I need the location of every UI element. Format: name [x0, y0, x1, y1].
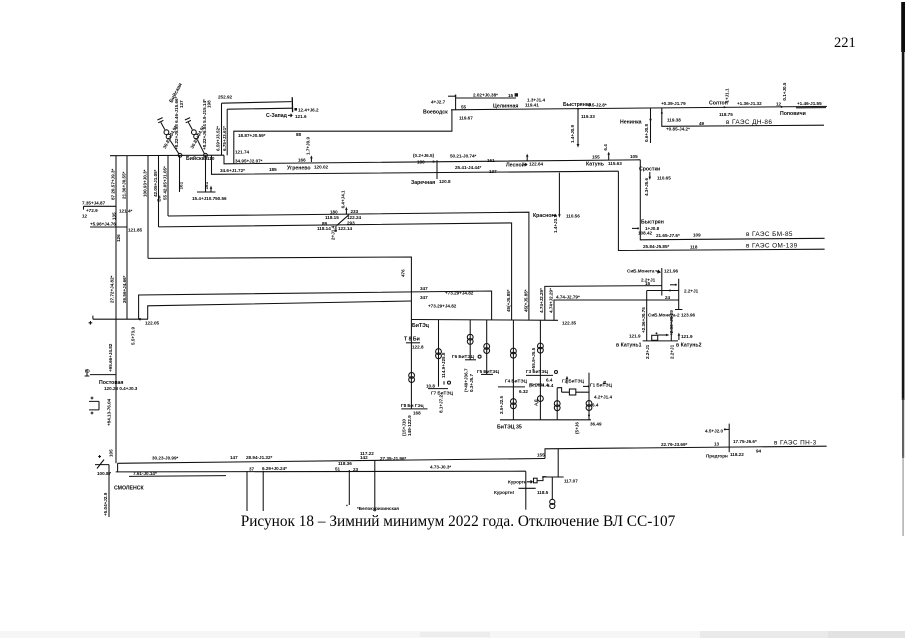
wire A2 long line to Т8 column: [148, 301, 412, 319]
svg-text:в Катунь2: в Катунь2: [676, 343, 702, 349]
svg-text:+95.66+J4.82: +95.66+J4.82: [108, 343, 113, 372]
svg-text:2.2+J1: 2.2+J1: [645, 344, 650, 359]
wire A1 long line to БиТЭЦ bus: [139, 291, 492, 320]
svg-text:166: 166: [298, 157, 306, 162]
svg-text:126: 126: [116, 234, 121, 242]
wire line1 Бийская-Катунь: [224, 155, 640, 164]
svg-text:+84.13-76.04: +84.13-76.04: [107, 398, 112, 426]
node Красногорское drop: [558, 173, 560, 215]
svg-text:161: 161: [178, 181, 183, 189]
svg-text:6.29+J0.24*: 6.29+J0.24*: [262, 466, 287, 471]
svg-text:121.74: 121.74: [235, 149, 249, 154]
transformer T1 Бийская (slant branch with circles): [157, 118, 182, 158]
wire to ГАЭС ДН-86: [662, 108, 824, 127]
svg-text:4.73-J0.3*: 4.73-J0.3*: [430, 465, 451, 470]
svg-text:Воеводск: Воеводск: [423, 110, 448, 116]
svg-text:120.28 0.4+J0.3: 120.28 0.4+J0.3: [104, 386, 138, 391]
svg-text:*: *: [346, 504, 348, 509]
wire cross link: [647, 290, 679, 292]
svg-text:Рисунок 18 – Зимний минимум 20: Рисунок 18 – Зимний минимум 2022 года. О…: [241, 513, 676, 530]
svg-text:4.3+J5.6: 4.3+J5.6: [644, 178, 649, 196]
wire С-Запад line 1: [222, 102, 292, 104]
wire L2 long line to БиТЭЦ: [159, 223, 512, 320]
svg-text:СМОЛЕНСК: СМОЛЕНСК: [114, 485, 144, 491]
svg-text:0.1+J0.5: 0.1+J0.5: [782, 82, 787, 100]
svg-text:Ненинка: Ненинка: [620, 119, 642, 125]
label 121.9 right with arrow: [678, 335, 680, 340]
wire drop 3: [348, 470, 350, 505]
svg-text:55: 55: [461, 105, 467, 110]
svg-text:Заречная: Заречная: [411, 180, 435, 186]
svg-text:12: 12: [82, 214, 88, 219]
svg-text:118.14: 118.14: [317, 226, 331, 231]
svg-text:6.4: 6.4: [546, 377, 553, 382]
arrow up Катунь: [608, 154, 610, 160]
svg-text:в ГАЭС БМ-85: в ГАЭС БМ-85: [746, 231, 793, 238]
svg-text:142: 142: [360, 455, 368, 460]
svg-text:17.75-J6.6*: 17.75-J6.6*: [733, 439, 757, 444]
wire Белокурихинская column: [374, 461, 376, 512]
junction bus 122.05: [93, 316, 148, 320]
svg-text:6.4+J4.1: 6.4+J4.1: [341, 190, 346, 208]
svg-text:(5+J6: (5+J6: [574, 422, 579, 434]
bus Воеводск-Целинная-Солтон-Поповичи 110kV: [451, 106, 827, 109]
svg-text:120.02: 120.02: [314, 165, 328, 170]
wire trunk A continues to СМОЛЕНСК: [115, 319, 117, 463]
svg-text:25.41-J4.44*: 25.41-J4.44*: [455, 165, 482, 170]
mid tap cluster on L2: [317, 221, 355, 240]
svg-text:121.6: 121.6: [295, 114, 307, 119]
svg-text:+73.29+J4.82: +73.29+J4.82: [428, 303, 457, 308]
svg-text:28.94-J1.32*: 28.94-J1.32*: [246, 455, 273, 460]
svg-text:30.23-J0.99*: 30.23-J0.99*: [152, 455, 179, 460]
bus СМОЛЕНСК upper: [118, 459, 545, 464]
mid tap cluster on L1: [325, 190, 361, 220]
bus БиТЭЦ 110: [411, 319, 558, 322]
svg-text:8.1+J7.2: 8.1+J7.2: [439, 395, 444, 413]
svg-text:161: 161: [487, 158, 495, 163]
svg-text:+0.39-J1.79: +0.39-J1.79: [661, 101, 686, 106]
svg-text:118.36: 118.36: [338, 461, 352, 466]
wire stub down-left: [108, 465, 110, 517]
svg-text:+55.9+J5.5: +55.9+J5.5: [531, 347, 536, 371]
svg-text:149-122.9: 149-122.9: [407, 415, 412, 436]
svg-text:22.79-J3.69*: 22.79-J3.69*: [661, 442, 688, 447]
wire trunk A (x=116) Бийская to junction: [115, 156, 117, 320]
svg-text:+5.96+J4.76: +5.96+J4.76: [90, 221, 116, 226]
svg-text:94: 94: [756, 449, 762, 454]
svg-text:+0.85-J4.2*: +0.85-J4.2*: [666, 127, 690, 132]
svg-text:13: 13: [714, 441, 720, 446]
wire Т8 column: [410, 320, 412, 409]
wire Катунь1 left leg: [646, 291, 648, 341]
svg-text:122.8: 122.8: [412, 344, 424, 349]
label 1.7+J0.9 rotated with arrow: [310, 158, 312, 162]
svg-text:2.5+J2.5: 2.5+J2.5: [499, 396, 504, 414]
svg-text:Т 8 Би: Т 8 Би: [404, 336, 420, 342]
svg-text:1.7+J0.9: 1.7+J0.9: [305, 137, 310, 155]
svg-text:1.4+J0.9: 1.4+J0.9: [570, 125, 575, 143]
svg-text:Г7 БиТЭЦ: Г7 БиТЭЦ: [431, 390, 454, 395]
svg-text:105: 105: [109, 449, 114, 457]
svg-text:198: 198: [207, 100, 212, 108]
svg-text:118.75: 118.75: [719, 112, 733, 117]
wire Катунь2 inner leg: [670, 316, 672, 341]
svg-text:4.74+J2.29*: 4.74+J2.29*: [548, 288, 553, 313]
svg-text:7.61-J0.14*: 7.61-J0.14*: [133, 471, 157, 476]
svg-text:110.65: 110.65: [657, 176, 671, 181]
generator Г4 branch: [512, 320, 514, 420]
svg-text:119.41: 119.41: [525, 103, 539, 108]
wire L1 long line to БиТЭЦ: [168, 212, 529, 320]
node Ненинка drop: [650, 108, 652, 143]
svg-text:БиТЭЦ 35: БиТЭЦ 35: [497, 425, 522, 431]
wire drop 1: [246, 471, 248, 511]
svg-text:Постовая: Постовая: [99, 380, 123, 386]
wire branch to lower bus: [556, 388, 558, 420]
svg-text:114.9+J25.8: 114.9+J25.8: [441, 352, 446, 378]
motor АД: [538, 396, 544, 402]
wire С-Запад line 2: [227, 108, 292, 109]
svg-text:2.2+J1: 2.2+J1: [670, 344, 675, 359]
svg-text:в ГАЭС ДН-86: в ГАЭС ДН-86: [726, 119, 772, 126]
wire 24-line feeder: [554, 300, 679, 320]
svg-text:161: 161: [204, 181, 209, 189]
svg-text:347: 347: [420, 295, 428, 300]
svg-text:Быстрян: Быстрян: [641, 219, 664, 225]
svg-text:36.49: 36.49: [590, 422, 602, 427]
svg-text:27.72+J4.82*: 27.72+J4.82*: [110, 275, 115, 303]
svg-text:137: 137: [489, 169, 497, 174]
svg-text:4+J2.7: 4+J2.7: [431, 100, 446, 105]
svg-text:0.6+J0.8: 0.6+J0.8: [644, 124, 649, 142]
svg-text:4.5+J2.0: 4.5+J2.0: [705, 429, 723, 434]
wire СиБ.Монета feeder: [545, 286, 662, 320]
svg-text:15.4+J10.750.56: 15.4+J10.750.56: [192, 196, 227, 201]
svg-text:88: 88: [296, 132, 302, 137]
svg-text:121.4*: 121.4*: [119, 209, 132, 214]
svg-text:Бийская: Бийская: [186, 155, 208, 162]
bus БиТЭЦ 35: [500, 419, 591, 421]
svg-text:+2.36+J0.75: +2.36+J0.75: [641, 307, 646, 333]
scan artifact: bottom edge band: [0, 631, 905, 638]
svg-text:+1.36-J1.32: +1.36-J1.32: [737, 101, 762, 106]
wire trunk D (x=158.5) to line L2: [158, 156, 160, 227]
svg-text:118.15: 118.15: [325, 215, 339, 220]
svg-text:+1.46-J1.55: +1.46-J1.55: [797, 101, 822, 106]
wire Быстрянка drop with arrow: [577, 109, 579, 144]
svg-text:120.8: 120.8: [439, 179, 451, 184]
svg-text:25.84-J5.85*: 25.84-J5.85*: [643, 244, 670, 249]
svg-text:+73.29+J4.82: +73.29+J4.82: [445, 291, 474, 296]
svg-text:168: 168: [413, 410, 421, 415]
svg-text:21.65-J7.6*: 21.65-J7.6*: [656, 233, 680, 238]
svg-text:в ГАЭС ПН-3: в ГАЭС ПН-3: [774, 439, 817, 446]
svg-text:180: 180: [417, 159, 425, 164]
terminal square: [515, 93, 518, 96]
svg-text:+5.04+J2.9: +5.04+J2.9: [103, 492, 108, 516]
svg-text:147: 147: [230, 455, 238, 460]
svg-text:37: 37: [249, 467, 255, 472]
wire to ГАЭС ПН-3: [545, 446, 827, 458]
generator Г5 branch: [486, 320, 488, 374]
svg-text:117.07: 117.07: [564, 478, 578, 483]
shunt symbol: [89, 397, 99, 415]
svg-text:24: 24: [665, 295, 671, 300]
generator Г7 branch: [438, 320, 440, 387]
svg-text:Сростки: Сростки: [639, 167, 660, 173]
wire to ГАЭС ОМ-139: [618, 171, 824, 250]
node Предгорное stub: [728, 424, 730, 453]
svg-text:122.05: 122.05: [145, 320, 159, 325]
svg-text:180: 180: [330, 210, 338, 215]
svg-text:100.93+J0.3*: 100.93+J0.3*: [143, 169, 148, 197]
svg-text:122.24: 122.24: [347, 215, 361, 220]
svg-text:155: 155: [537, 453, 545, 458]
svg-text:26.56+J4.66*: 26.56+J4.66*: [122, 275, 127, 303]
svg-text:121.9: 121.9: [681, 334, 693, 339]
svg-text:2.02+J0.38*: 2.02+J0.38*: [473, 92, 498, 97]
svg-text:122.14: 122.14: [338, 226, 352, 231]
svg-text:221: 221: [834, 35, 856, 51]
svg-text:135: 135: [111, 212, 116, 220]
svg-text:155: 155: [592, 155, 600, 160]
wire trunk C (x=148) to line L3: [147, 156, 149, 259]
arrow tap: [448, 95, 455, 97]
tick: [519, 487, 536, 489]
svg-text:Целинная: Целинная: [493, 103, 518, 109]
generator Г6 branch: [469, 320, 471, 360]
svg-text:119.67: 119.67: [459, 116, 473, 121]
svg-text:50.21-J0.74*: 50.21-J0.74*: [450, 154, 477, 159]
svg-text:118.22: 118.22: [730, 452, 744, 457]
svg-text:34.95+J2.07*: 34.95+J2.07*: [235, 158, 263, 163]
wire Целинная upper stub: [456, 95, 516, 110]
wire trunk B (x=127) Бийская to junction: [126, 156, 128, 320]
transformer Т8 (two circles): [409, 373, 415, 379]
wire drop 2: [262, 471, 264, 511]
svg-text:27.35-J1.96*: 27.35-J1.96*: [380, 456, 407, 461]
svg-text:122.35: 122.35: [562, 321, 576, 326]
svg-text:+72.9: +72.9: [86, 208, 98, 213]
svg-text:4.74-J2.79*: 4.74-J2.79*: [556, 295, 580, 300]
svg-text:15: 15: [508, 93, 514, 98]
bottom bus Катунь: [643, 340, 678, 342]
svg-text:Г3 БиТЭЦ: Г3 БиТЭЦ: [526, 369, 549, 374]
breaker box: [652, 335, 658, 340]
svg-text:7.35+J4.87: 7.35+J4.87: [82, 200, 106, 205]
svg-text:5.5+73.9: 5.5+73.9: [131, 327, 136, 345]
svg-text:Угренево: Угренево: [287, 165, 311, 171]
stub west 2: [90, 226, 127, 228]
svg-text:119.33: 119.33: [581, 114, 595, 119]
svg-text:Г8 Би ГЭц: Г8 Би ГЭц: [401, 403, 424, 408]
svg-text:Курортн!: Курортн!: [494, 490, 515, 495]
svg-text:Г6 БиТЭЦ: Г6 БиТЭЦ: [452, 354, 475, 359]
bus Бийская 110: [110, 154, 224, 157]
svg-text:12: 12: [776, 101, 782, 106]
svg-text:С-Запад: С-Запад: [266, 113, 288, 119]
wire bus2 corner down: [525, 471, 527, 509]
svg-text:Би: Би: [157, 195, 162, 201]
svg-text:2+J1.4: 2+J1.4: [330, 225, 335, 240]
svg-text:137: 137: [179, 100, 184, 108]
svg-text:Предгорн: Предгорн: [706, 453, 728, 458]
svg-text:6.4: 6.4: [603, 144, 608, 151]
wire Курортное drop: [542, 449, 564, 477]
svg-text:6.4: 6.4: [547, 383, 554, 388]
svg-text:в Катунь1: в Катунь1: [616, 343, 642, 349]
svg-text:23: 23: [353, 467, 359, 472]
svg-text:51: 51: [335, 466, 341, 471]
svg-text:(0.2+J6.5): (0.2+J6.5): [413, 153, 435, 158]
wire L3 long line to Т8 column: [148, 257, 411, 320]
wire left end jog: [117, 463, 119, 472]
svg-text:45(+J5.85*: 45(+J5.85*: [523, 289, 528, 312]
svg-text:121.96: 121.96: [664, 269, 678, 274]
svg-text:49: 49: [699, 121, 705, 126]
bus СМОЛЕНСК lower: [116, 470, 526, 473]
svg-text:100.87: 100.87: [97, 471, 111, 476]
svg-text:Катунь: Катунь: [586, 161, 604, 167]
svg-text:233: 233: [351, 209, 359, 214]
svg-text:(+49+J36.7: (+49+J36.7: [464, 368, 469, 392]
wire drop to Бийская bus 1: [221, 103, 223, 155]
svg-text:123.96: 123.96: [681, 312, 695, 317]
svg-text:55 42.05+J1.05*: 55 42.05+J1.05*: [163, 166, 168, 200]
svg-text:119.38: 119.38: [667, 117, 681, 122]
svg-text:122.64: 122.64: [529, 162, 543, 167]
svg-text:105: 105: [630, 154, 638, 159]
node СиБ.Монета: [661, 268, 663, 296]
svg-text:СиБ.Монета-2: СиБ.Монета-2: [648, 312, 680, 317]
svg-text:6.75+J3.61*: 6.75+J3.61*: [222, 126, 227, 151]
svg-text:87 20.57+J9.3*: 87 20.57+J9.3*: [110, 168, 115, 200]
svg-text:2.2+J1: 2.2+J1: [684, 288, 699, 293]
svg-text:42.05+J1.05*: 42.05+J1.05*: [153, 169, 158, 197]
node Катунь-таун right leg: [675, 279, 682, 310]
wire Сростки drop to ГАЭС БМ-85: [640, 160, 824, 240]
svg-text:34.6+J1.72*: 34.6+J1.72*: [220, 168, 245, 173]
svg-text:110.56: 110.56: [566, 214, 580, 219]
svg-text:Красног: Красног: [533, 213, 554, 219]
stub Ю: [90, 374, 116, 376]
svg-text:18.87+J0.59*: 18.87+J0.59*: [238, 133, 266, 138]
svg-text:185: 185: [269, 167, 277, 172]
svg-text:Г2 БиТЭЦ: Г2 БиТЭЦ: [562, 379, 585, 384]
arrow up Лесной: [526, 156, 528, 161]
transformer T2 Бийская (slant branch with circles): [185, 118, 208, 158]
svg-text:Г4 БиТЭЦ: Г4 БиТЭЦ: [505, 379, 528, 384]
svg-text:6.4: 6.4: [592, 403, 599, 408]
svg-text:1+J1.1: 1+J1.1: [725, 88, 730, 103]
svg-text:252.92: 252.92: [218, 94, 232, 99]
svg-text:21.36+J0.55*: 21.36+J0.55*: [122, 171, 127, 199]
svg-text:293: 293: [347, 221, 355, 226]
svg-text:СиБ.Монета: СиБ.Монета: [627, 269, 655, 274]
svg-text:Курортн: Курортн: [508, 480, 527, 485]
svg-text:109: 109: [693, 233, 701, 238]
svg-text:347: 347: [420, 286, 428, 291]
svg-text:115.63: 115.63: [608, 161, 622, 166]
node Заречная tap: [436, 160, 438, 179]
wire drop to Бийская bus 2: [226, 109, 228, 155]
svg-text:в ГАЭС ОМ-139: в ГАЭС ОМ-139: [746, 242, 798, 249]
svg-text:Г5 БиТЭЦ: Г5 БиТЭЦ: [477, 369, 500, 374]
wire trunk E (x=168) to line L1: [167, 155, 169, 216]
svg-text:476: 476: [401, 269, 406, 277]
label 12.4+J6.2: [294, 108, 297, 111]
node С-Запад terminal bar: [291, 97, 293, 112]
svg-text:4.74+J2.29*: 4.74+J2.29*: [539, 288, 544, 313]
svg-text:45(+J5.85*: 45(+J5.85*: [506, 289, 511, 312]
jumper diagonal L2 to L1: [337, 215, 350, 226]
svg-text:Поповичи: Поповичи: [780, 111, 806, 117]
scan artifact: book spine bar right edge: [901, 2, 905, 536]
stub west 1: [84, 206, 117, 209]
svg-text:121.9: 121.9: [629, 334, 641, 339]
svg-text:0.3+J5.7: 0.3+J5.7: [469, 374, 474, 392]
svg-text:4.2+J1.4: 4.2+J1.4: [594, 395, 612, 400]
svg-text:1.4+J3.7: 1.4+J3.7: [553, 215, 558, 233]
svg-text:118.5: 118.5: [537, 490, 549, 495]
svg-text:АД: АД: [533, 399, 538, 406]
svg-text:БиТЭц: БиТЭц: [412, 323, 430, 329]
svg-text:108.42: 108.42: [638, 231, 652, 236]
svg-text:(15+J10: (15+J10: [401, 419, 406, 436]
svg-text:10.8: 10.8: [426, 383, 435, 388]
svg-text:110: 110: [207, 156, 215, 161]
svg-text:5+J3.4: 5+J3.4: [530, 383, 545, 388]
svg-text:121.85: 121.85: [128, 227, 142, 232]
svg-text:6.32: 6.32: [519, 389, 528, 394]
svg-text:6.59+J3.52*: 6.59+J3.52*: [216, 126, 221, 151]
wire load stubs below Бийская bus: [179, 156, 181, 192]
generator Г3 branch: [539, 320, 541, 420]
wire line2 Бийская-Катунь lower: [212, 155, 619, 174]
generator Курортная (two circles): [551, 477, 553, 500]
svg-text:12.4+J6.2: 12.4+J6.2: [298, 108, 319, 113]
wire Воеводск west drop: [234, 110, 452, 164]
svg-text:*Белокурихинская: *Белокурихинская: [357, 506, 399, 511]
ground bar with arrow: [197, 188, 216, 192]
svg-text:Лесной: Лесной: [506, 161, 525, 168]
svg-text:15: 15: [645, 281, 651, 286]
svg-text:0.5-J2.8*: 0.5-J2.8*: [588, 102, 607, 107]
svg-text:118: 118: [690, 244, 698, 249]
